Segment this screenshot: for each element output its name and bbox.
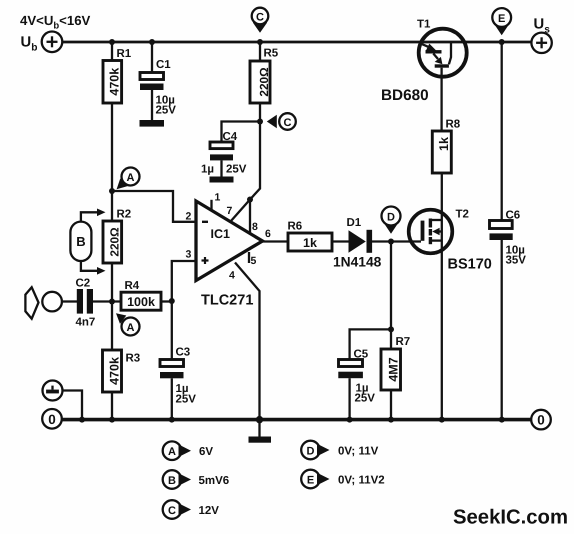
svg-text:C: C <box>256 11 264 23</box>
wire ground circle to rail <box>63 391 83 420</box>
transistor T1 BD680 <box>419 29 467 131</box>
svg-text:T1: T1 <box>417 19 431 31</box>
node junction top rail at C1 <box>149 39 155 45</box>
svg-text:25V: 25V <box>226 164 247 176</box>
node marker A upper <box>117 168 140 190</box>
node marker D <box>382 207 401 234</box>
resistor R7 <box>381 329 401 419</box>
diode D1 <box>349 230 373 253</box>
node junction rail at R7 <box>388 417 394 423</box>
svg-text:R1: R1 <box>117 48 132 60</box>
svg-text:A: A <box>168 446 176 458</box>
svg-text:E: E <box>307 475 314 487</box>
capacitor C1 <box>140 73 165 127</box>
node junction rail at C3 <box>169 417 175 423</box>
node marker A lower <box>116 313 140 335</box>
svg-text:5: 5 <box>251 255 257 267</box>
svg-text:BS170: BS170 <box>448 257 492 273</box>
wire junction to C4 <box>222 122 261 143</box>
ground bar below rail <box>249 437 272 443</box>
wire D1 to T2 gate <box>372 240 421 242</box>
legend B <box>163 470 229 489</box>
node junction pins 7-8 <box>247 197 253 203</box>
top supply rail wire <box>62 41 531 44</box>
svg-text:0V; 11V: 0V; 11V <box>338 446 379 458</box>
legend D <box>301 441 378 460</box>
svg-text:R2: R2 <box>117 209 132 221</box>
legend C <box>163 500 220 519</box>
svg-text:D: D <box>307 446 315 458</box>
svg-text:R8: R8 <box>446 119 461 131</box>
capacitor C2 <box>77 289 93 314</box>
svg-text:C: C <box>284 117 292 129</box>
node junction ground wire at rail <box>79 417 85 423</box>
svg-text:D: D <box>387 212 395 224</box>
svg-text:6: 6 <box>265 228 271 240</box>
svg-text:B: B <box>76 234 85 249</box>
svg-text:A: A <box>127 172 135 184</box>
svg-text:B: B <box>168 475 176 487</box>
terminal 0 right <box>531 410 551 430</box>
wire C1 from rail <box>151 42 153 73</box>
op-amp U1 IC1 triangle <box>196 201 263 281</box>
svg-text:25V: 25V <box>176 394 197 406</box>
wire op-amp output pin 6 <box>263 240 289 242</box>
node junction R4/pin3/C3 <box>169 298 175 304</box>
wire C2 to node A2 <box>93 300 121 302</box>
resistor R1 <box>103 61 122 104</box>
svg-text:4: 4 <box>229 270 235 282</box>
svg-text:C6: C6 <box>506 210 521 222</box>
svg-text:470k: 470k <box>108 68 122 96</box>
svg-text:C2: C2 <box>76 278 91 290</box>
arrow B top to R2 <box>81 209 106 222</box>
op-amp pin 5 stub <box>248 252 250 263</box>
transistor T2 BS170 <box>409 210 453 254</box>
wire rail to R1 <box>111 42 113 61</box>
svg-text:1: 1 <box>215 192 221 204</box>
svg-text:1k: 1k <box>437 137 451 151</box>
svg-text:1N4148: 1N4148 <box>333 255 382 270</box>
svg-text:35V: 35V <box>506 255 527 267</box>
measurement oval B <box>70 222 91 261</box>
svg-text:0: 0 <box>48 412 56 427</box>
node junction D (gate node) <box>388 239 394 245</box>
svg-text:C4: C4 <box>223 131 238 143</box>
node marker C right <box>267 113 296 130</box>
wire input to C2 <box>62 300 77 302</box>
svg-text:100k: 100k <box>127 295 155 309</box>
svg-text:C5: C5 <box>354 349 369 361</box>
svg-text:SeekIC.com: SeekIC.com <box>453 507 568 529</box>
wire rail to R5 <box>259 42 261 61</box>
svg-text:3: 3 <box>186 249 192 261</box>
op-amp minus sign <box>202 221 208 223</box>
capacitor C3 <box>160 301 184 420</box>
resistor R4 <box>121 292 161 310</box>
svg-text:25V: 25V <box>156 105 177 117</box>
resistor R3 <box>103 302 122 420</box>
resistor R2 <box>103 191 122 302</box>
svg-text:220Ω: 220Ω <box>108 227 122 256</box>
wire to pin 8 <box>249 200 251 234</box>
node marker E <box>492 8 511 35</box>
wire E node to C6 <box>501 42 503 221</box>
svg-text:E: E <box>498 13 505 25</box>
wire R5 to pin7 node <box>259 103 261 122</box>
resistor R8 <box>432 131 451 173</box>
svg-text:T2: T2 <box>456 209 469 221</box>
node junction top rail at E <box>499 39 505 45</box>
svg-text:1µ: 1µ <box>201 164 214 176</box>
svg-text:12V: 12V <box>199 505 220 517</box>
svg-text:C: C <box>168 505 176 517</box>
svg-text:1k: 1k <box>303 236 317 250</box>
input arrow symbol <box>25 287 38 318</box>
svg-text:220Ω: 220Ω <box>257 67 271 96</box>
svg-text:8: 8 <box>252 221 258 233</box>
svg-text:6V: 6V <box>199 446 213 458</box>
svg-text:25V: 25V <box>355 393 376 405</box>
wire pin7/8 net from R5 junction <box>250 122 260 200</box>
capacitor C6 <box>490 221 513 420</box>
capacitor C5 <box>338 360 363 420</box>
terminal Us plus circle <box>531 33 551 53</box>
svg-text:C1: C1 <box>156 59 171 71</box>
terminal Ub plus circle <box>42 32 63 53</box>
wire junction to C5 <box>350 329 391 359</box>
node marker C top <box>252 8 269 33</box>
svg-text:R7: R7 <box>396 336 411 348</box>
resistor R5 <box>250 61 271 103</box>
op-amp plus sign <box>202 257 209 264</box>
node junction rail at C5 <box>347 417 353 423</box>
wire R4 to pin3 node <box>161 300 172 302</box>
node junction pin4 wire at bottom rail <box>256 416 263 423</box>
svg-text:D1: D1 <box>347 217 362 229</box>
ground terminal circle <box>43 381 63 401</box>
svg-text:A: A <box>127 322 135 334</box>
node junction rail at T2 source <box>439 417 445 423</box>
node junction A (C2/R4/R3) <box>109 299 115 305</box>
svg-text:IC1: IC1 <box>211 227 231 241</box>
svg-text:4M7: 4M7 <box>386 357 400 381</box>
svg-text:4V<Ub<16V: 4V<Ub<16V <box>20 13 91 32</box>
svg-text:R3: R3 <box>126 353 141 365</box>
node junction R5/C4 <box>257 119 263 125</box>
svg-text:5mV6: 5mV6 <box>199 475 230 487</box>
svg-text:0: 0 <box>537 412 545 427</box>
node junction top rail at R5 (node C) <box>257 39 263 45</box>
node junction A (R1/R2) <box>109 188 115 194</box>
wire R6 to D1 <box>332 240 349 242</box>
node junction rail at C6 <box>499 417 505 423</box>
op-amp pin 1 stub <box>210 200 212 211</box>
svg-text:C3: C3 <box>176 347 191 359</box>
svg-text:470k: 470k <box>107 357 121 385</box>
node junction top rail at R1 <box>109 39 115 45</box>
wire op-amp pin 3 from R4 node <box>172 261 196 301</box>
svg-text:R4: R4 <box>125 280 140 292</box>
wire R8 to T2 drain <box>441 173 443 420</box>
wire node D down to C5/R7 <box>390 242 392 330</box>
capacitor C4 <box>210 142 234 183</box>
arrow B bottom to R2 <box>81 261 106 275</box>
legend A <box>163 441 214 460</box>
svg-text:R5: R5 <box>264 48 279 60</box>
wire op-amp pin 2 from node A <box>112 191 196 222</box>
svg-text:7: 7 <box>227 205 233 217</box>
svg-text:Ub: Ub <box>21 35 38 54</box>
svg-text:0V; 11V2: 0V; 11V2 <box>338 475 385 487</box>
svg-text:4n7: 4n7 <box>76 317 96 329</box>
node junction C5/R7 <box>388 326 394 332</box>
terminal 0 left <box>42 409 62 429</box>
svg-text:TLC271: TLC271 <box>201 293 253 309</box>
wire to pin 7 <box>231 200 251 222</box>
input terminal circle <box>42 292 62 312</box>
legend E <box>301 470 384 489</box>
bottom 0V rail wire <box>62 418 531 422</box>
svg-text:BD680: BD680 <box>381 87 429 104</box>
wire R1 to node A1 <box>111 103 113 191</box>
node junction rail at R3 <box>109 417 115 423</box>
svg-text:R6: R6 <box>288 221 303 233</box>
wire op-amp pin 4 to ground <box>235 263 260 437</box>
resistor R6 <box>288 233 332 251</box>
